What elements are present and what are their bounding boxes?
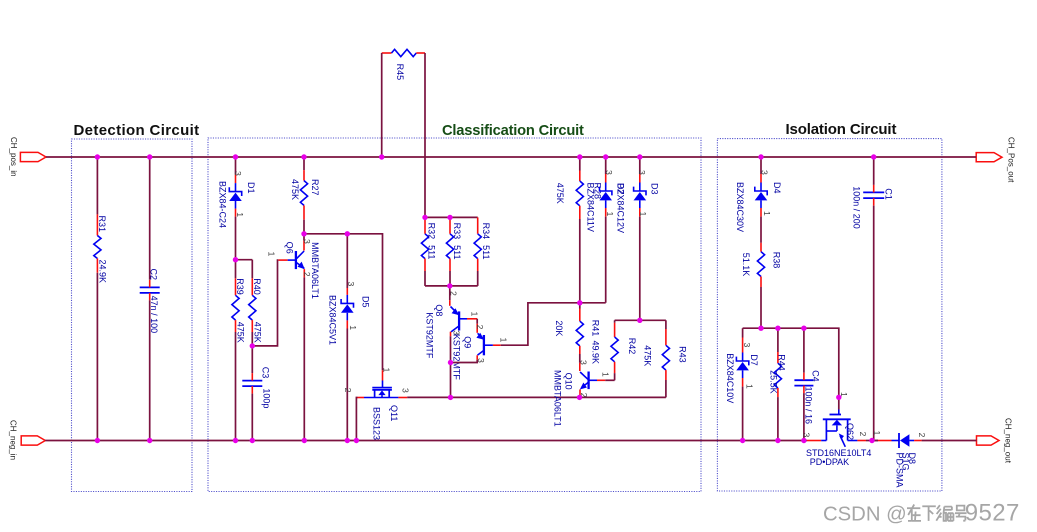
svg-text:BSS123: BSS123 bbox=[372, 407, 382, 440]
capacitor C3 bbox=[242, 346, 271, 441]
transistor Q10 bbox=[553, 360, 611, 427]
svg-text:2: 2 bbox=[917, 433, 927, 438]
svg-text:D3: D3 bbox=[650, 183, 660, 195]
svg-text:3: 3 bbox=[233, 171, 243, 176]
svg-text:3: 3 bbox=[742, 343, 752, 348]
svg-text:1: 1 bbox=[499, 338, 509, 343]
svg-text:BZX84C11V: BZX84C11V bbox=[586, 183, 596, 232]
svg-text:2: 2 bbox=[475, 325, 485, 330]
transistor Q62 bbox=[802, 392, 872, 467]
svg-text:100n / 200: 100n / 200 bbox=[852, 186, 862, 229]
resistor R38 bbox=[741, 243, 782, 328]
svg-text:1: 1 bbox=[744, 384, 754, 389]
svg-text:Q62: Q62 bbox=[845, 423, 855, 440]
svg-text:1: 1 bbox=[469, 312, 479, 317]
wire bottom rail mid bbox=[866, 440, 878, 442]
svg-text:49.9K: 49.9K bbox=[591, 341, 601, 365]
svg-text:475K: 475K bbox=[236, 322, 246, 343]
watermark CSDN bbox=[823, 499, 1020, 526]
svg-text:475K: 475K bbox=[555, 183, 565, 204]
wire bottom rail left bbox=[45, 440, 807, 442]
classification circuit dashed box bbox=[208, 138, 701, 492]
svg-text:51.1K: 51.1K bbox=[741, 253, 751, 277]
wire R45 left leg bbox=[381, 53, 383, 157]
wire R45 right leg bbox=[424, 53, 426, 217]
port CH_Pos_out bbox=[976, 137, 1015, 183]
resistor R42 bbox=[611, 320, 637, 373]
capacitor C4 bbox=[794, 328, 820, 440]
wire top rail bbox=[46, 156, 976, 158]
svg-text:3: 3 bbox=[346, 282, 356, 287]
port CH_pos_in bbox=[9, 137, 46, 177]
svg-text:511: 511 bbox=[426, 245, 436, 259]
transistor Q6 bbox=[267, 234, 321, 441]
svg-text:CSDN @: CSDN @ bbox=[823, 503, 907, 525]
wire Q8 collector down bbox=[450, 336, 452, 397]
svg-text:R27: R27 bbox=[310, 179, 320, 196]
svg-text:1: 1 bbox=[872, 431, 882, 436]
svg-text:9527: 9527 bbox=[965, 499, 1020, 526]
wire source net y398 bbox=[407, 396, 666, 398]
svg-text:Isolation Circuit: Isolation Circuit bbox=[786, 121, 897, 138]
resistor R40 bbox=[249, 278, 263, 346]
capacitor C2 bbox=[140, 157, 160, 441]
svg-text:C4: C4 bbox=[810, 370, 820, 382]
resistor R39 bbox=[232, 260, 246, 441]
svg-text:D7: D7 bbox=[749, 354, 759, 366]
wire bank bottom rail bbox=[425, 285, 478, 287]
svg-text:Q6: Q6 bbox=[285, 242, 295, 254]
svg-text:PD-SMA: PD-SMA bbox=[894, 453, 904, 488]
resistor R41 bbox=[554, 303, 601, 364]
svg-text:MMBTA06LT1: MMBTA06LT1 bbox=[553, 370, 563, 427]
svg-text:Q9: Q9 bbox=[463, 336, 473, 348]
svg-text:25.5K: 25.5K bbox=[769, 370, 779, 394]
wire Q6 base net bbox=[252, 260, 278, 346]
svg-text:Q10: Q10 bbox=[564, 373, 574, 390]
svg-text:1: 1 bbox=[605, 212, 615, 217]
svg-text:3: 3 bbox=[579, 360, 589, 365]
port CH_neg_out bbox=[977, 418, 1013, 464]
wire Q9 base to R41 top bbox=[501, 303, 606, 345]
svg-text:Q8: Q8 bbox=[434, 304, 444, 316]
svg-text:BZX84C5V1: BZX84C5V1 bbox=[328, 295, 338, 345]
resistor R33 bbox=[446, 217, 461, 286]
port CH_neg_in bbox=[9, 420, 46, 460]
resistor R45 bbox=[382, 49, 425, 80]
svg-text:2: 2 bbox=[858, 432, 868, 437]
svg-text:CH_pos_in: CH_pos_in bbox=[9, 137, 18, 177]
svg-text:1: 1 bbox=[267, 252, 277, 257]
diode D3 bbox=[616, 157, 660, 320]
resistor R44 bbox=[769, 328, 787, 440]
svg-text:475K: 475K bbox=[643, 345, 653, 366]
svg-text:R39: R39 bbox=[235, 278, 245, 295]
svg-text:R44: R44 bbox=[777, 354, 787, 371]
svg-text:R43: R43 bbox=[677, 346, 687, 363]
wire isolation mid rail bbox=[743, 328, 839, 397]
svg-text:1: 1 bbox=[235, 212, 245, 217]
wire Q11 gate to bottom rail bbox=[356, 398, 357, 441]
svg-text:PD•DPAK: PD•DPAK bbox=[810, 457, 850, 467]
transistor Q8 bbox=[424, 286, 479, 359]
svg-text:D4: D4 bbox=[772, 182, 782, 194]
wire Q10 base to R42 bbox=[605, 373, 614, 380]
wire bottom rail right bbox=[922, 440, 977, 442]
svg-text:3: 3 bbox=[802, 433, 812, 438]
svg-text:3: 3 bbox=[637, 170, 647, 175]
svg-text:R45: R45 bbox=[395, 64, 405, 81]
wire C1 junction bbox=[874, 440, 878, 442]
svg-text:C3: C3 bbox=[261, 367, 271, 379]
svg-text:R32: R32 bbox=[426, 223, 436, 240]
svg-text:CH_neg_in: CH_neg_in bbox=[9, 420, 18, 460]
svg-text:R42: R42 bbox=[627, 338, 637, 355]
svg-text:BZX84C12V: BZX84C12V bbox=[616, 183, 626, 233]
svg-text:R34: R34 bbox=[481, 223, 491, 240]
svg-text:511: 511 bbox=[452, 245, 462, 259]
svg-text:D5: D5 bbox=[361, 296, 371, 308]
svg-text:3: 3 bbox=[400, 388, 410, 393]
resistor R31 bbox=[94, 157, 108, 441]
resistor R28 bbox=[555, 157, 603, 303]
svg-text:47n / 100: 47n / 100 bbox=[149, 296, 159, 334]
svg-text:1: 1 bbox=[382, 368, 392, 373]
detection circuit dashed box bbox=[72, 139, 193, 492]
resistor R43 bbox=[643, 320, 688, 397]
wire Q9 collector to Q8 line bbox=[451, 360, 478, 363]
diode D2 bbox=[586, 157, 626, 303]
isolation circuit title bbox=[786, 121, 897, 138]
svg-text:1: 1 bbox=[600, 372, 610, 377]
svg-text:Q11: Q11 bbox=[389, 405, 399, 421]
svg-text:R31: R31 bbox=[97, 216, 107, 233]
svg-text:CH_neg_out: CH_neg_out bbox=[1003, 418, 1012, 464]
svg-text:100n / 16: 100n / 16 bbox=[803, 387, 813, 425]
svg-text:511: 511 bbox=[481, 245, 491, 259]
capacitor C1 bbox=[852, 157, 894, 441]
detection circuit title bbox=[74, 122, 200, 139]
svg-text:R40: R40 bbox=[252, 278, 262, 295]
svg-text:R38: R38 bbox=[772, 252, 782, 269]
svg-text:100p: 100p bbox=[262, 388, 272, 408]
svg-text:C1: C1 bbox=[884, 188, 894, 200]
wire D3 bottom net bbox=[615, 319, 666, 321]
diode D7 bbox=[725, 328, 759, 440]
svg-text:BZX84C30V: BZX84C30V bbox=[735, 182, 745, 232]
svg-text:R41: R41 bbox=[591, 320, 601, 337]
wire bank top rail bbox=[425, 216, 478, 218]
svg-text:BZX84-C24: BZX84-C24 bbox=[218, 181, 228, 228]
svg-text:3: 3 bbox=[604, 170, 614, 175]
diode D8 bbox=[872, 431, 927, 488]
svg-text:1: 1 bbox=[348, 325, 358, 330]
svg-text:Classification Circuit: Classification Circuit bbox=[442, 123, 584, 139]
svg-text:20K: 20K bbox=[554, 320, 564, 336]
resistor R27 bbox=[290, 157, 320, 234]
transistor Q9 bbox=[451, 325, 508, 381]
svg-text:MMBTA06LT1: MMBTA06LT1 bbox=[310, 242, 320, 299]
svg-text:CH_Pos_out: CH_Pos_out bbox=[1006, 137, 1015, 183]
svg-text:KST92MTF: KST92MTF bbox=[451, 334, 461, 381]
svg-text:3: 3 bbox=[760, 170, 770, 175]
svg-text:1: 1 bbox=[762, 211, 772, 216]
diode D1 bbox=[218, 157, 257, 260]
svg-text:D1: D1 bbox=[246, 182, 256, 194]
svg-text:BZX84C10V: BZX84C10V bbox=[725, 353, 735, 403]
resistor R32 bbox=[421, 217, 436, 286]
transistor Q11 bbox=[343, 368, 410, 441]
svg-text:1: 1 bbox=[638, 212, 648, 217]
svg-text:475K: 475K bbox=[290, 179, 300, 200]
diode D5 bbox=[328, 234, 371, 441]
wire Q8 base to Q9 collector bbox=[476, 319, 478, 333]
svg-text:R33: R33 bbox=[452, 223, 462, 240]
svg-text:475K: 475K bbox=[253, 322, 263, 343]
svg-text:KST92MTF: KST92MTF bbox=[424, 312, 434, 359]
svg-text:2: 2 bbox=[448, 291, 458, 296]
svg-text:Detection Circuit: Detection Circuit bbox=[74, 122, 200, 139]
classification circuit title bbox=[442, 123, 584, 139]
wire R40 branch bbox=[236, 260, 253, 279]
svg-text:24.9K: 24.9K bbox=[97, 260, 107, 284]
wire R27 to Q11 drain bbox=[304, 234, 383, 370]
isolation circuit dashed box bbox=[717, 139, 942, 491]
svg-text:2: 2 bbox=[343, 388, 353, 393]
diode D4 bbox=[735, 157, 782, 243]
svg-text:C2: C2 bbox=[148, 269, 158, 281]
resistor R34 bbox=[474, 217, 491, 286]
